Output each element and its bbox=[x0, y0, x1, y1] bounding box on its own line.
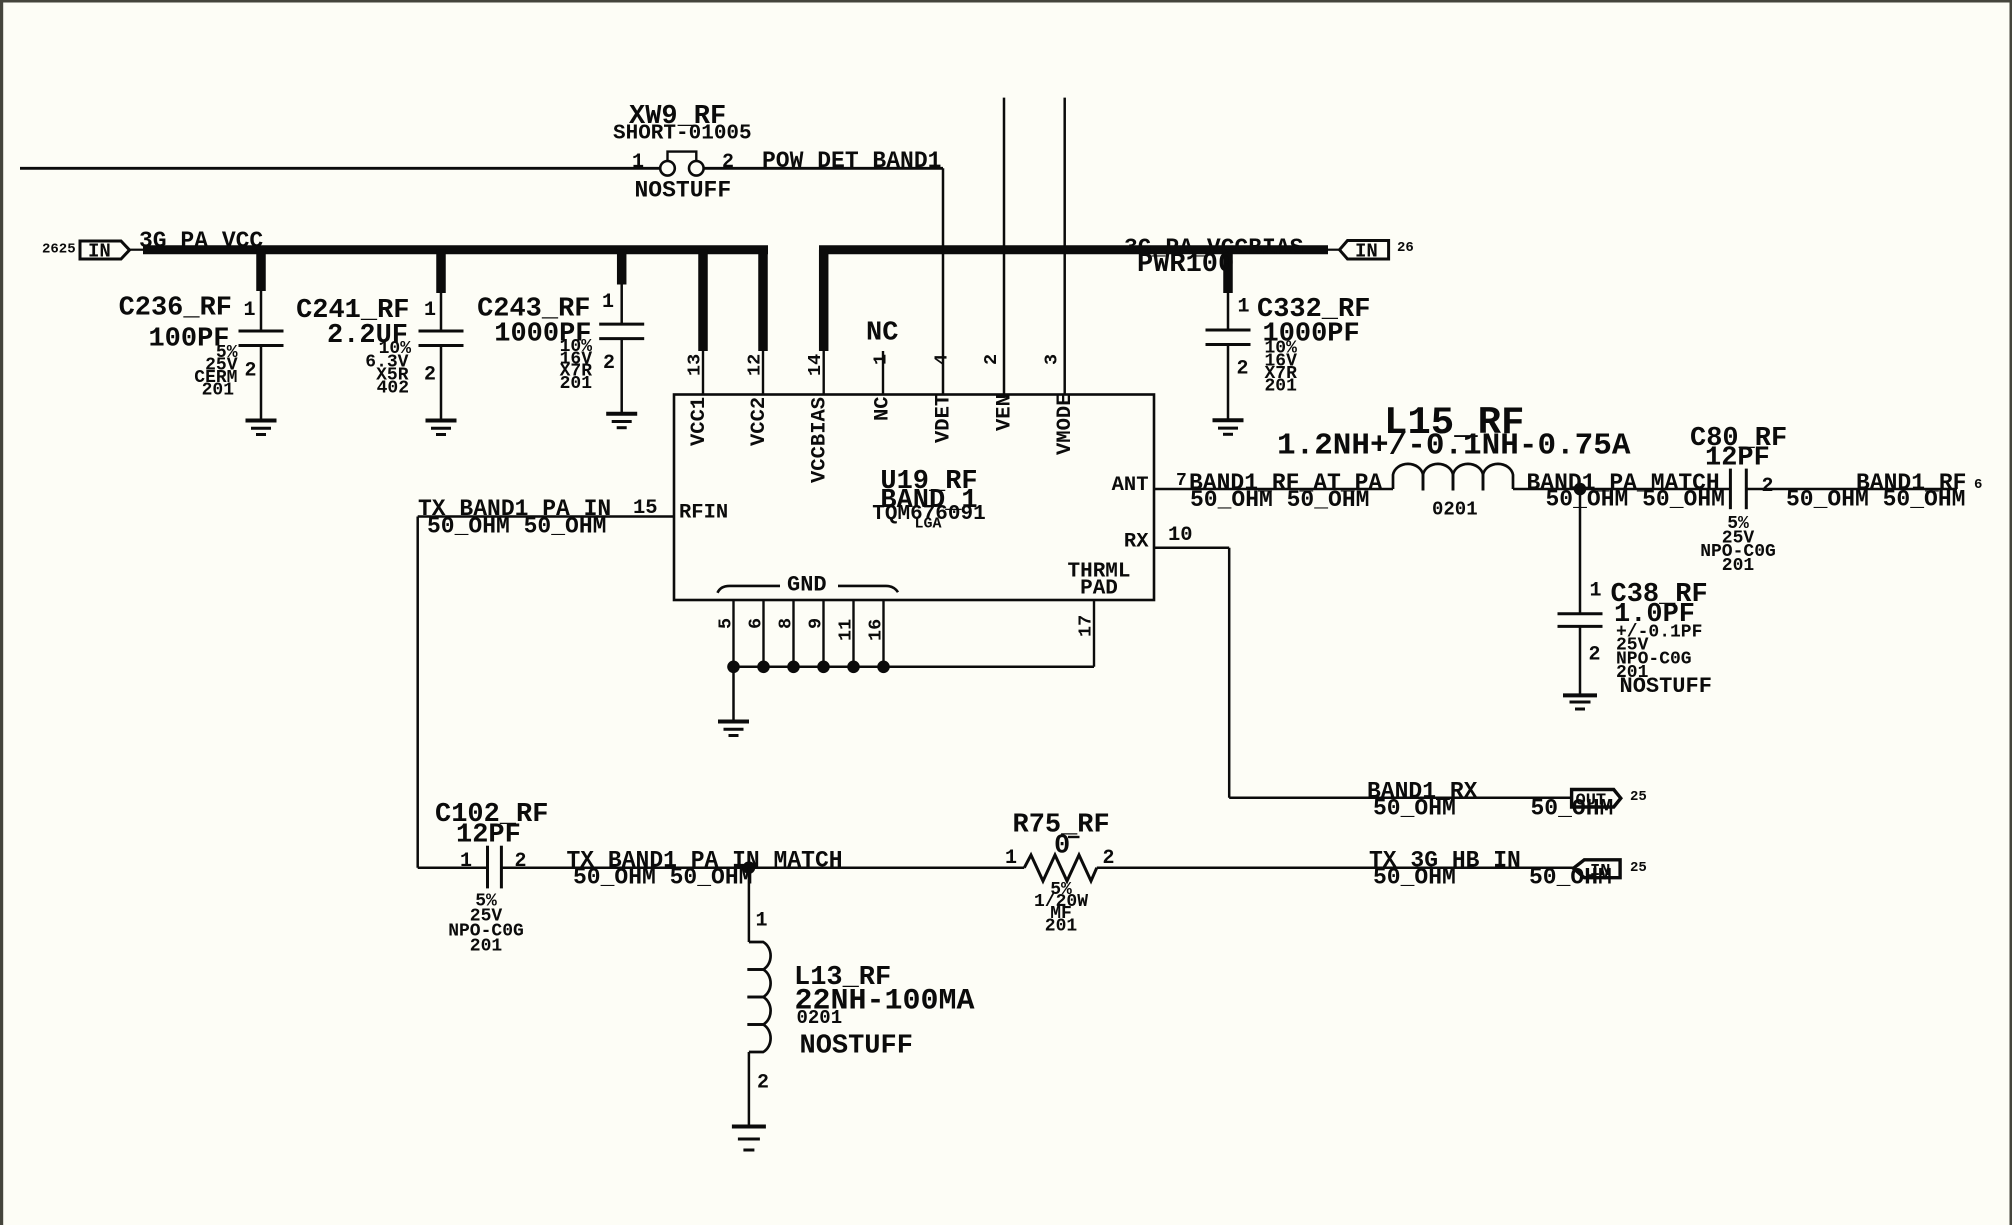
svg-text:26: 26 bbox=[1397, 240, 1414, 256]
bus stub to C241 bbox=[436, 250, 446, 293]
bus stub pin 12 VCC2 bbox=[758, 250, 768, 351]
svg-text:2: 2 bbox=[603, 352, 615, 375]
junction C38 tap bbox=[1574, 483, 1587, 496]
svg-text:8: 8 bbox=[775, 618, 796, 629]
pin 14 lead bbox=[823, 351, 825, 395]
ground for C38 bbox=[1563, 693, 1597, 697]
svg-text:6: 6 bbox=[1974, 477, 1982, 493]
svg-text:12PF: 12PF bbox=[1705, 443, 1770, 473]
svg-text:13: 13 bbox=[685, 354, 706, 376]
svg-text:OUT: OUT bbox=[1576, 792, 1607, 811]
svg-text:12: 12 bbox=[745, 354, 766, 376]
wire BAND1_RF out bbox=[1746, 488, 1957, 491]
svg-text:NOSTUFF: NOSTUFF bbox=[635, 177, 732, 203]
bus stub to C332 bbox=[1223, 250, 1233, 293]
pin 9 lead bbox=[822, 600, 824, 667]
pin 11 lead bbox=[852, 600, 854, 667]
svg-text:1: 1 bbox=[244, 299, 256, 322]
svg-text:2: 2 bbox=[722, 151, 734, 174]
wire bottom left bbox=[418, 866, 488, 869]
svg-text:0: 0 bbox=[1054, 831, 1070, 861]
capacitor C241 bbox=[440, 293, 443, 331]
svg-text:0201: 0201 bbox=[1432, 499, 1478, 521]
svg-text:C236_RF: C236_RF bbox=[119, 294, 232, 324]
svg-text:201: 201 bbox=[1045, 917, 1078, 937]
svg-text:1: 1 bbox=[756, 910, 768, 933]
resistor R75 bbox=[1024, 855, 1097, 881]
junction bbox=[727, 661, 740, 674]
svg-text:6: 6 bbox=[745, 618, 766, 629]
ground for GND pins bbox=[718, 720, 749, 724]
svg-text:9: 9 bbox=[805, 618, 826, 629]
svg-text:IN: IN bbox=[88, 241, 111, 263]
svg-text:1.2NH+/-0.1NH-0.75A: 1.2NH+/-0.1NH-0.75A bbox=[1277, 428, 1631, 463]
wire VDET drop bbox=[942, 168, 945, 395]
jumper XW9_RF bbox=[660, 161, 675, 176]
wire BAND1_RX bbox=[1229, 796, 1571, 799]
wire POW_DET_BAND1 right segment bbox=[704, 167, 943, 170]
svg-text:2: 2 bbox=[981, 354, 1002, 365]
svg-text:201: 201 bbox=[470, 937, 503, 957]
capacitor C332 bbox=[1227, 293, 1230, 330]
bus stub to C236 bbox=[256, 250, 266, 291]
pin RFIN wire bbox=[418, 515, 674, 518]
svg-text:IN: IN bbox=[1355, 241, 1378, 263]
svg-text:ANT: ANT bbox=[1112, 474, 1149, 497]
ground for C241 bbox=[426, 419, 457, 423]
svg-text:201: 201 bbox=[202, 381, 235, 401]
svg-text:VCCBIAS: VCCBIAS bbox=[809, 397, 832, 483]
ground for C243 bbox=[606, 412, 637, 416]
svg-text:2: 2 bbox=[757, 1072, 769, 1095]
thick bus 3G_PA_VCCBIAS bbox=[819, 245, 1328, 254]
bus stub to C243 bbox=[617, 250, 627, 285]
svg-text:1: 1 bbox=[1005, 847, 1017, 870]
connector IN 3G_PA_VCCBIAS (sheet 26) bbox=[1328, 249, 1340, 251]
svg-text:LGA: LGA bbox=[914, 516, 941, 533]
svg-text:201: 201 bbox=[1722, 556, 1755, 576]
capacitor C243 bbox=[620, 285, 623, 325]
svg-text:NC: NC bbox=[872, 396, 895, 421]
svg-text:25: 25 bbox=[1630, 860, 1647, 876]
svg-text:17: 17 bbox=[1076, 615, 1097, 637]
svg-text:2: 2 bbox=[424, 364, 436, 387]
wire BAND1_PA_MATCH bbox=[1513, 488, 1730, 491]
svg-text:16: 16 bbox=[865, 619, 886, 641]
svg-text:50_OHM 50_OHM: 50_OHM 50_OHM bbox=[1546, 487, 1725, 513]
pin 5 lead bbox=[732, 600, 734, 667]
svg-text:0201: 0201 bbox=[797, 1007, 843, 1029]
bus stub pin 13 VCC1 bbox=[698, 250, 708, 351]
svg-text:GND: GND bbox=[787, 573, 827, 598]
svg-text:50_OHM 50_OHM: 50_OHM 50_OHM bbox=[427, 513, 606, 539]
svg-text:12PF: 12PF bbox=[456, 821, 521, 851]
svg-text:11: 11 bbox=[835, 619, 856, 641]
pin ANT wire bbox=[1154, 488, 1393, 491]
junction bbox=[877, 661, 890, 674]
svg-text:15: 15 bbox=[633, 497, 658, 520]
svg-text:2: 2 bbox=[515, 850, 527, 873]
inductor L15 bbox=[1393, 464, 1423, 491]
svg-text:2: 2 bbox=[1237, 358, 1249, 381]
wire VMODE stub bbox=[1063, 98, 1066, 395]
bus stub pin 14 VCCBIAS bbox=[819, 250, 829, 351]
svg-text:10: 10 bbox=[1168, 524, 1193, 547]
capacitor C80 bbox=[1729, 469, 1732, 510]
svg-text:50_OHM 50_OHM: 50_OHM 50_OHM bbox=[1786, 487, 1965, 513]
junction bbox=[757, 661, 770, 674]
svg-text:IN: IN bbox=[1590, 862, 1610, 881]
svg-text:PWR100: PWR100 bbox=[1137, 250, 1234, 280]
svg-text:14: 14 bbox=[805, 354, 826, 376]
svg-text:RFIN: RFIN bbox=[679, 502, 728, 525]
svg-text:2625: 2625 bbox=[42, 242, 76, 258]
capacitor C236 bbox=[260, 291, 263, 331]
junction bbox=[847, 661, 860, 674]
svg-text:201: 201 bbox=[1265, 377, 1298, 397]
ground for C236 bbox=[246, 419, 277, 423]
svg-text:VCC1: VCC1 bbox=[688, 397, 711, 446]
inductor L13 bbox=[748, 868, 751, 942]
svg-text:402: 402 bbox=[377, 379, 409, 399]
svg-text:50_OHM 50_OHM: 50_OHM 50_OHM bbox=[573, 865, 752, 891]
svg-text:NOSTUFF: NOSTUFF bbox=[800, 1032, 913, 1062]
pin RX wire bbox=[1154, 546, 1229, 549]
svg-text:201: 201 bbox=[560, 374, 593, 394]
pin 16 lead bbox=[882, 600, 884, 667]
wire POW_DET_BAND1 left segment bbox=[20, 167, 660, 170]
svg-text:PAD: PAD bbox=[1080, 578, 1118, 601]
svg-text:1: 1 bbox=[632, 151, 644, 174]
svg-text:VCC2: VCC2 bbox=[748, 397, 771, 446]
svg-text:50_OHM 50_OHM: 50_OHM 50_OHM bbox=[1190, 487, 1369, 513]
wire TX_BAND1_PA_IN_MATCH bbox=[501, 866, 1024, 869]
svg-text:1: 1 bbox=[1238, 295, 1250, 318]
svg-text:2: 2 bbox=[245, 360, 257, 383]
thick bus 3G_PA_VCC bbox=[143, 245, 768, 254]
ground for C332 bbox=[1213, 418, 1244, 422]
svg-text:VEN: VEN bbox=[994, 394, 1017, 431]
svg-text:SHORT-01005: SHORT-01005 bbox=[613, 123, 752, 146]
pin 8 lead bbox=[792, 600, 794, 667]
svg-text:4: 4 bbox=[932, 354, 953, 365]
svg-text:2: 2 bbox=[1762, 475, 1774, 498]
border frame bbox=[0, 0, 2012, 3]
svg-text:RX: RX bbox=[1124, 531, 1149, 554]
svg-text:VMODE: VMODE bbox=[1054, 393, 1077, 455]
op IC U19_RF box bbox=[674, 395, 1154, 601]
capacitor C38 bbox=[1579, 489, 1582, 614]
svg-text:1: 1 bbox=[871, 354, 892, 365]
svg-text:POW_DET_BAND1: POW_DET_BAND1 bbox=[762, 148, 941, 174]
svg-text:5: 5 bbox=[715, 618, 736, 629]
wire to ground bbox=[732, 667, 735, 722]
svg-text:1: 1 bbox=[602, 291, 614, 314]
svg-text:50_OHM: 50_OHM bbox=[1373, 865, 1456, 891]
pin 12 lead bbox=[762, 351, 764, 395]
capacitor C102 bbox=[486, 846, 489, 889]
pin 1 NC lead bbox=[882, 351, 884, 395]
pin 17 lead bbox=[1093, 600, 1095, 667]
junction L13 tap bbox=[743, 861, 756, 874]
wire VEN stub bbox=[1003, 98, 1006, 395]
svg-text:1: 1 bbox=[424, 299, 436, 322]
svg-text:VDET: VDET bbox=[933, 394, 956, 443]
wire RX down bbox=[1228, 548, 1231, 798]
svg-text:1: 1 bbox=[460, 850, 472, 873]
ground for L13 bbox=[732, 1125, 766, 1129]
wire TX_3G_HB_IN bbox=[1097, 866, 1574, 869]
GND group label bbox=[718, 586, 781, 593]
connector OUT BAND1_RX (sheet 25) bbox=[1572, 790, 1621, 808]
svg-text:NOSTUFF: NOSTUFF bbox=[1620, 674, 1712, 699]
svg-text:25: 25 bbox=[1630, 789, 1647, 805]
svg-text:1: 1 bbox=[1590, 580, 1602, 603]
svg-text:50_OHM: 50_OHM bbox=[1373, 795, 1456, 821]
pin 13 lead bbox=[702, 351, 704, 395]
svg-text:NC: NC bbox=[866, 318, 898, 348]
connector IN TX_3G_HB_IN (sheet 25) bbox=[1573, 860, 1620, 878]
svg-text:3: 3 bbox=[1042, 354, 1063, 365]
wire RFIN vertical to C102 bbox=[416, 517, 419, 868]
junction bbox=[817, 661, 830, 674]
svg-text:2: 2 bbox=[1589, 644, 1601, 667]
junction bbox=[787, 661, 800, 674]
wire GND bus bbox=[734, 666, 1095, 669]
svg-text:7: 7 bbox=[1176, 471, 1187, 491]
pin 6 lead bbox=[762, 600, 764, 667]
